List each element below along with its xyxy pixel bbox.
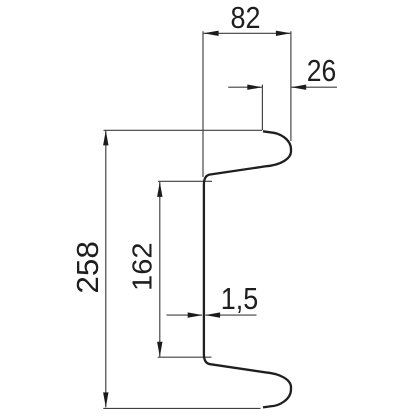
svg-text:258: 258 bbox=[71, 241, 105, 294]
svg-text:82: 82 bbox=[231, 1, 261, 35]
svg-text:162: 162 bbox=[126, 242, 157, 291]
svg-text:26: 26 bbox=[307, 54, 337, 88]
svg-text:1,5: 1,5 bbox=[221, 282, 259, 316]
